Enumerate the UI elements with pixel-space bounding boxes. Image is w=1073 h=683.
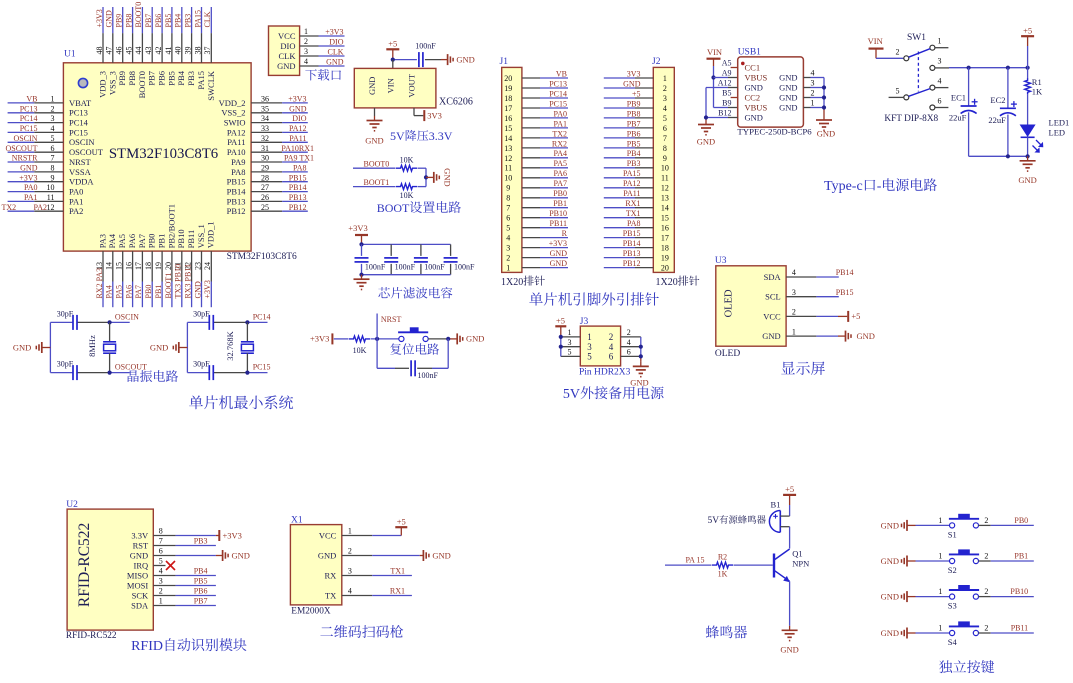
svg-text:100nF: 100nF bbox=[365, 262, 386, 271]
USB1 pin 1 wire bbox=[803, 99, 824, 108]
svg-text:PA0: PA0 bbox=[69, 187, 83, 197]
svg-text:VDDA: VDDA bbox=[69, 177, 94, 187]
J1 pin 6 wire bbox=[506, 214, 568, 223]
U1 pin 40 wire (PB4) bbox=[174, 7, 187, 86]
wire GND pin bbox=[374, 108, 376, 116]
svg-text:100nF: 100nF bbox=[454, 262, 475, 271]
USB1 pin 4 wire bbox=[803, 69, 824, 78]
svg-text:PB5: PB5 bbox=[166, 71, 176, 86]
pushbutton S2 bbox=[938, 549, 988, 575]
svg-text:+3V3: +3V3 bbox=[95, 9, 104, 27]
J1 pin 17 wire bbox=[504, 104, 568, 113]
J3 pin 2 wire bbox=[621, 328, 641, 337]
wire B12 GND pin bbox=[706, 118, 738, 121]
svg-text:5: 5 bbox=[587, 352, 592, 362]
U1 pin 9 wire (VDDA) bbox=[8, 173, 95, 186]
wire 3.3V pin to +3V3 bbox=[176, 535, 220, 537]
svg-text:PB8: PB8 bbox=[124, 14, 133, 28]
svg-text:VIN: VIN bbox=[868, 36, 883, 46]
svg-text:32.768K: 32.768K bbox=[225, 330, 235, 360]
power port +5 (buzzer) bbox=[783, 484, 796, 505]
svg-text:30pF: 30pF bbox=[57, 360, 74, 369]
svg-text:SDA: SDA bbox=[131, 600, 149, 610]
wire A9 VBUS pin bbox=[714, 77, 738, 79]
svg-text:PB5: PB5 bbox=[627, 139, 641, 148]
svg-text:VBAT: VBAT bbox=[69, 98, 92, 108]
J1 pin 16 wire bbox=[504, 114, 568, 123]
svg-text:17: 17 bbox=[661, 234, 669, 243]
wire PB4 bbox=[176, 575, 216, 577]
svg-text:8: 8 bbox=[663, 144, 667, 153]
wire J3 left bus bbox=[560, 337, 562, 357]
wire +5 to buzzer bbox=[789, 505, 791, 516]
J3 pin 4 wire bbox=[621, 338, 641, 347]
node J3 pin6 bbox=[639, 354, 643, 358]
wire USB right GND bus bbox=[823, 78, 825, 116]
svg-text:22uF: 22uF bbox=[949, 113, 967, 123]
wire TX to RX1 bbox=[372, 595, 412, 597]
svg-text:GND: GND bbox=[318, 550, 336, 560]
node filter rail at C1 bbox=[359, 242, 363, 246]
svg-text:TX1: TX1 bbox=[626, 209, 641, 218]
svg-text:PB7: PB7 bbox=[194, 597, 208, 606]
svg-text:PA5: PA5 bbox=[115, 285, 124, 299]
J2 pin 13 wire bbox=[604, 194, 669, 203]
svg-text:6: 6 bbox=[938, 96, 942, 105]
svg-text:PB5: PB5 bbox=[194, 577, 208, 586]
J2 pin 7 wire bbox=[604, 134, 667, 143]
svg-text:PA5: PA5 bbox=[554, 159, 568, 168]
svg-text:GND: GND bbox=[881, 556, 899, 566]
svg-text:PA2: PA2 bbox=[69, 206, 83, 216]
svg-text:30pF: 30pF bbox=[57, 310, 74, 319]
svg-text:PB3: PB3 bbox=[186, 71, 196, 86]
svg-text:BOOT1: BOOT1 bbox=[164, 273, 173, 299]
svg-text:18: 18 bbox=[504, 94, 512, 103]
wire left rail (PC14 crystal) bbox=[186, 322, 188, 372]
svg-text:R: R bbox=[562, 229, 568, 238]
node PC15 bbox=[245, 371, 249, 375]
svg-text:GND: GND bbox=[881, 520, 899, 530]
U1 pin 11 wire (PA1) bbox=[8, 193, 84, 206]
svg-text:45: 45 bbox=[124, 46, 133, 54]
wire BOOT0 bbox=[353, 167, 396, 169]
J1 pin 3 wire bbox=[506, 244, 568, 253]
U1 pin 30 wire (PA9) bbox=[231, 154, 308, 167]
svg-text:3: 3 bbox=[811, 79, 815, 88]
svg-text:2: 2 bbox=[896, 48, 900, 57]
svg-text:PA1: PA1 bbox=[24, 193, 38, 202]
svg-text:CC1: CC1 bbox=[745, 63, 761, 73]
svg-text:CLK: CLK bbox=[279, 51, 297, 61]
U1 pin 21 wire (PB10) bbox=[174, 229, 187, 307]
node BOOT divider bbox=[424, 175, 428, 179]
U1 pin 35 wire (VSS_2) bbox=[221, 104, 307, 117]
svg-text:PB1: PB1 bbox=[157, 234, 167, 249]
svg-text:1: 1 bbox=[811, 99, 815, 108]
svg-text:GND: GND bbox=[779, 93, 797, 103]
svg-text:5: 5 bbox=[896, 87, 900, 96]
svg-text:BOOT0: BOOT0 bbox=[137, 71, 147, 98]
svg-text:GND: GND bbox=[857, 331, 875, 341]
svg-text:37: 37 bbox=[203, 46, 212, 54]
svg-text:TX1: TX1 bbox=[390, 567, 405, 576]
svg-text:4: 4 bbox=[506, 234, 510, 243]
display U3 OLED body bbox=[716, 266, 786, 346]
svg-text:PB10: PB10 bbox=[176, 229, 186, 248]
resistor 10K (BOOT0) bbox=[396, 156, 417, 172]
USB1 pin B5 stub (unconnected) bbox=[731, 97, 738, 99]
svg-text:PA15: PA15 bbox=[193, 10, 202, 28]
svg-text:MOSI: MOSI bbox=[127, 580, 148, 590]
svg-text:VDD_3: VDD_3 bbox=[97, 71, 107, 98]
wire R2 to Q1 base bbox=[734, 564, 773, 566]
svg-text:GND: GND bbox=[762, 331, 780, 341]
svg-text:PB13: PB13 bbox=[623, 249, 641, 258]
svg-text:7: 7 bbox=[159, 537, 163, 546]
svg-text:PB15: PB15 bbox=[227, 177, 246, 187]
svg-text:24: 24 bbox=[203, 262, 212, 270]
wire Q1 emitter to ground bbox=[789, 581, 791, 626]
buzzer B1 bbox=[769, 500, 789, 533]
svg-text:PA7: PA7 bbox=[554, 179, 568, 188]
U1 pin 46 wire (PB9) bbox=[115, 7, 128, 86]
svg-text:PB10: PB10 bbox=[1010, 587, 1028, 596]
svg-text:PB7: PB7 bbox=[144, 14, 153, 28]
svg-text:PA5: PA5 bbox=[117, 234, 127, 248]
J2 pin 10 wire bbox=[604, 164, 669, 173]
svg-text:PB3: PB3 bbox=[627, 159, 641, 168]
J2 pin 4 wire bbox=[604, 104, 667, 113]
svg-text:RST: RST bbox=[133, 540, 149, 550]
wire RX to TX1 bbox=[372, 575, 412, 577]
svg-text:RX: RX bbox=[324, 570, 336, 580]
svg-text:USB1: USB1 bbox=[738, 48, 761, 58]
svg-text:PA11: PA11 bbox=[623, 189, 640, 198]
U1 pin 32 wire (PA11) bbox=[227, 134, 308, 147]
svg-text:RX3 PB11: RX3 PB11 bbox=[183, 264, 192, 299]
svg-text:PB7: PB7 bbox=[627, 119, 641, 128]
module U2 RFID-RC522 body bbox=[67, 509, 153, 630]
J3 pin 6 wire bbox=[621, 348, 641, 357]
resistor 10K (BOOT1) bbox=[396, 184, 417, 200]
svg-text:PB4: PB4 bbox=[627, 149, 641, 158]
svg-text:PB4: PB4 bbox=[174, 14, 183, 28]
node USB pin1 bbox=[822, 105, 826, 109]
svg-text:2: 2 bbox=[984, 516, 988, 525]
U1 pin 34 wire (SWIO) bbox=[224, 114, 308, 127]
node USB left GND bbox=[704, 115, 708, 119]
svg-text:43: 43 bbox=[144, 46, 153, 54]
op-amp U1 STM32F103C8T6 MCU body bbox=[63, 63, 251, 251]
node NRST bbox=[375, 337, 379, 341]
svg-text:GND: GND bbox=[20, 164, 38, 173]
wire SCL to PB15 bbox=[816, 296, 838, 298]
crystal 32.768K bbox=[225, 322, 254, 372]
svg-text:+5: +5 bbox=[556, 315, 565, 325]
wire LED1 to bottom rail bbox=[1027, 137, 1029, 156]
svg-text:PA2: PA2 bbox=[34, 203, 48, 212]
X1 pin 1 wire bbox=[342, 527, 372, 536]
svg-text:16: 16 bbox=[661, 224, 669, 233]
svg-text:VIN: VIN bbox=[386, 78, 396, 93]
U3 pin 3 wire (SCL) bbox=[765, 288, 816, 302]
J1 pin 4 wire bbox=[506, 234, 568, 243]
wire bottom rail bbox=[969, 155, 1028, 157]
svg-text:GND: GND bbox=[780, 644, 798, 654]
svg-text:PB4: PB4 bbox=[194, 567, 208, 576]
svg-text:3: 3 bbox=[348, 567, 352, 576]
J2 pin 2 wire bbox=[604, 84, 667, 93]
svg-text:18: 18 bbox=[661, 244, 669, 253]
J1 pin 13 wire bbox=[504, 144, 568, 153]
svg-text:NRST: NRST bbox=[69, 157, 92, 167]
wire buzzer to Q1 collector bbox=[789, 527, 791, 549]
svg-text:PA9: PA9 bbox=[231, 157, 245, 167]
svg-text:OLED: OLED bbox=[724, 289, 735, 317]
U1 pin 43 wire (PB7) bbox=[144, 7, 157, 86]
wire S2 to PB1 bbox=[979, 560, 1034, 562]
svg-text:PA 15: PA 15 bbox=[685, 555, 704, 564]
svg-text:RX1: RX1 bbox=[625, 199, 640, 208]
U3 pin 2 wire (VCC) bbox=[763, 308, 816, 322]
svg-text:PC14: PC14 bbox=[20, 114, 38, 123]
crystal 8MHz bbox=[87, 322, 116, 372]
svg-text:DIO: DIO bbox=[292, 114, 306, 123]
svg-text:PB0: PB0 bbox=[144, 285, 153, 299]
U1 pin 8 wire (VSSA) bbox=[8, 164, 92, 177]
J1 pin 9 wire bbox=[506, 184, 568, 193]
svg-text:VB: VB bbox=[556, 70, 567, 79]
svg-text:47: 47 bbox=[105, 47, 114, 55]
ground (regulator) bbox=[365, 116, 383, 146]
svg-text:PA11: PA11 bbox=[227, 137, 245, 147]
title 蜂鸣器 bbox=[706, 625, 719, 638]
svg-text:SDA: SDA bbox=[764, 272, 782, 282]
svg-text:9: 9 bbox=[663, 154, 667, 163]
svg-text:1: 1 bbox=[938, 623, 942, 632]
USB1 pin 2 wire bbox=[803, 89, 824, 98]
wire BOOT1 bbox=[353, 186, 396, 188]
svg-text:20: 20 bbox=[504, 74, 512, 83]
U1 pin 38 wire (PA15) bbox=[193, 7, 206, 90]
title 二维码扫码枪 bbox=[320, 627, 333, 636]
capacitor 100nF (filter C1) bbox=[355, 244, 386, 274]
wire ground to S4 bbox=[916, 632, 950, 634]
J3 pin 3 wire bbox=[561, 338, 581, 347]
svg-text:LED: LED bbox=[1049, 128, 1066, 138]
svg-text:6: 6 bbox=[51, 144, 55, 153]
capacitor 30pF (bottom) bbox=[193, 360, 213, 381]
wire +5 to rail bbox=[1027, 46, 1029, 68]
J2 pin 17 wire bbox=[604, 234, 669, 243]
J2 pin 18 wire bbox=[604, 244, 669, 253]
pushbutton S4 bbox=[938, 621, 988, 647]
svg-text:PB11: PB11 bbox=[1011, 623, 1029, 632]
svg-text:S4: S4 bbox=[948, 637, 958, 647]
wire bottom (OSCOUT) bbox=[50, 372, 129, 374]
svg-text:GND: GND bbox=[697, 137, 715, 147]
U2 pin 2 wire (SCK) bbox=[132, 587, 176, 601]
svg-text:U2: U2 bbox=[66, 500, 78, 510]
connector J2 1X20 header body bbox=[653, 67, 674, 272]
svg-text:PC13: PC13 bbox=[549, 79, 567, 88]
svg-text:PB8: PB8 bbox=[627, 109, 641, 118]
wire VCC to +5 bbox=[372, 527, 401, 535]
svg-text:PB14: PB14 bbox=[623, 239, 641, 248]
svg-text:2: 2 bbox=[51, 104, 55, 113]
svg-text:1: 1 bbox=[938, 516, 942, 525]
svg-text:4: 4 bbox=[811, 69, 815, 78]
U1 pin 27 wire (PB14) bbox=[227, 183, 308, 196]
svg-text:EM2000X: EM2000X bbox=[291, 606, 331, 616]
node at VIN bbox=[391, 58, 395, 62]
svg-text:PB3: PB3 bbox=[194, 537, 208, 546]
svg-text:PB15: PB15 bbox=[623, 229, 641, 238]
svg-text:PB10: PB10 bbox=[549, 209, 567, 218]
wire J3 right bus bbox=[640, 337, 642, 362]
svg-text:PB6: PB6 bbox=[194, 587, 208, 596]
power port +3V3 (filter caps) bbox=[348, 223, 368, 244]
svg-text:GND: GND bbox=[289, 104, 307, 113]
wire S4 to PB11 bbox=[979, 632, 1034, 634]
wire S1 to PB0 bbox=[979, 524, 1034, 526]
svg-text:GND: GND bbox=[466, 334, 484, 344]
U1 pin 2 wire (PC13) bbox=[8, 104, 88, 117]
wire A12 GND pin bbox=[706, 88, 738, 118]
ground (X1) bbox=[423, 550, 450, 561]
J1 pin 15 wire bbox=[504, 124, 568, 133]
U1 pin 17 wire (PA7) bbox=[134, 234, 147, 307]
svg-text:10: 10 bbox=[504, 174, 512, 183]
no-connect X on IRQ pin bbox=[166, 561, 175, 570]
svg-text:14: 14 bbox=[504, 134, 512, 143]
svg-text:3: 3 bbox=[938, 57, 942, 66]
svg-text:3: 3 bbox=[51, 114, 55, 123]
svg-text:RFID-RC522: RFID-RC522 bbox=[76, 523, 93, 607]
node J3 pin4 bbox=[639, 345, 643, 349]
power port +5 (X1) bbox=[395, 517, 407, 528]
svg-text:STM32F103C8T6: STM32F103C8T6 bbox=[109, 146, 218, 162]
svg-text:2: 2 bbox=[348, 547, 352, 556]
svg-text:33: 33 bbox=[261, 124, 269, 133]
J2 pin 8 wire bbox=[604, 144, 667, 153]
wire VOUT pin to 3V3 bbox=[414, 108, 423, 116]
wire S3 to PB10 bbox=[979, 596, 1034, 598]
svg-text:5: 5 bbox=[506, 224, 510, 233]
svg-text:1X20: 1X20 bbox=[656, 277, 678, 288]
svg-text:3.3V: 3.3V bbox=[429, 129, 453, 143]
svg-text:B9: B9 bbox=[722, 99, 731, 108]
svg-text:PC14: PC14 bbox=[253, 313, 271, 322]
svg-text:GND: GND bbox=[367, 77, 377, 95]
svg-text:PA11: PA11 bbox=[289, 134, 306, 143]
svg-text:PA6: PA6 bbox=[127, 234, 137, 248]
svg-text:28: 28 bbox=[261, 173, 269, 182]
svg-text:+3V3: +3V3 bbox=[203, 280, 212, 298]
wire VCC to +5 bbox=[816, 315, 847, 317]
svg-text:PB0: PB0 bbox=[553, 189, 567, 198]
svg-text:4: 4 bbox=[348, 587, 352, 596]
svg-text:RFID: RFID bbox=[131, 639, 163, 654]
U1 pin 3 wire (PC14) bbox=[8, 114, 89, 127]
svg-text:B1: B1 bbox=[771, 500, 781, 510]
node filter bottom at C1 bbox=[359, 273, 363, 277]
node J3 pin1 bbox=[559, 335, 563, 339]
download port pin 4 wire (GND) bbox=[277, 57, 344, 71]
U1 pin 20 wire (PB2/BOOT1) bbox=[164, 204, 177, 307]
svg-text:GND: GND bbox=[817, 129, 835, 139]
U1 pin 24 wire (VDD_1) bbox=[203, 221, 216, 307]
power port +3V3 (reset) bbox=[310, 333, 332, 344]
USB1 pin A5 stub (unconnected) bbox=[731, 67, 738, 69]
svg-text:PA3: PA3 bbox=[97, 234, 107, 248]
svg-text:5: 5 bbox=[568, 348, 572, 357]
svg-text:2: 2 bbox=[663, 84, 667, 93]
svg-text:6: 6 bbox=[663, 124, 667, 133]
ground (PC14 crystal) bbox=[150, 342, 188, 353]
download port pin 2 wire (DIO) bbox=[280, 37, 344, 51]
svg-text:OSCIN: OSCIN bbox=[69, 137, 95, 147]
ground (USB left) bbox=[697, 120, 715, 147]
capacitor 100nF (filter C3) bbox=[414, 244, 445, 274]
title 单片机引脚外引排针 bbox=[529, 292, 542, 305]
U1 pin 33 wire (PA12) bbox=[227, 124, 308, 137]
wire button to ground bbox=[428, 338, 457, 340]
svg-text:1: 1 bbox=[159, 597, 163, 606]
wire +5 node to capacitor bbox=[393, 59, 417, 61]
svg-text:8: 8 bbox=[159, 527, 163, 536]
svg-text:PB14: PB14 bbox=[227, 187, 247, 197]
power port +5 (OLED) bbox=[848, 311, 860, 322]
ground (USB right) bbox=[816, 116, 835, 139]
svg-text:VCC: VCC bbox=[278, 31, 296, 41]
LED LED1 bbox=[1020, 117, 1070, 152]
svg-text:S3: S3 bbox=[948, 601, 957, 611]
U1 pin 19 wire (PB1) bbox=[154, 234, 167, 308]
U1 pin 45 wire (PB8) bbox=[124, 7, 137, 86]
svg-text:11: 11 bbox=[504, 164, 512, 173]
J2 pin 1 wire bbox=[604, 74, 667, 83]
svg-text:3V3: 3V3 bbox=[427, 110, 442, 120]
svg-text:20: 20 bbox=[164, 262, 173, 270]
ground (BOOT circuit) bbox=[434, 168, 453, 186]
capacitor 30pF (top) bbox=[193, 310, 213, 330]
svg-text:PC15: PC15 bbox=[69, 127, 88, 137]
svg-text:PC14: PC14 bbox=[549, 89, 567, 98]
svg-text:PB1: PB1 bbox=[1014, 551, 1028, 560]
svg-text:CC2: CC2 bbox=[745, 93, 761, 103]
svg-text:6: 6 bbox=[159, 547, 163, 556]
wire NRST stub bbox=[376, 314, 378, 339]
svg-text:PA15: PA15 bbox=[623, 169, 641, 178]
svg-text:15: 15 bbox=[115, 262, 124, 270]
J1 pin 19 wire bbox=[504, 84, 568, 93]
title 复位电路 bbox=[390, 343, 401, 354]
svg-text:10K: 10K bbox=[400, 156, 414, 165]
svg-text:TX: TX bbox=[325, 590, 336, 600]
svg-text:VBUS: VBUS bbox=[745, 73, 768, 83]
svg-text:PB12: PB12 bbox=[289, 203, 307, 212]
power port +3V3 (RFID) bbox=[219, 530, 242, 541]
node PC14 bbox=[245, 320, 249, 324]
U1 pin 31 wire (PA10) bbox=[227, 144, 308, 157]
node bottom R1 bbox=[1026, 154, 1030, 158]
svg-text:VSS_2: VSS_2 bbox=[221, 108, 245, 118]
svg-text:PC13: PC13 bbox=[20, 104, 38, 113]
svg-text:PA7: PA7 bbox=[137, 234, 147, 248]
J2 pin 11 wire bbox=[604, 174, 669, 183]
